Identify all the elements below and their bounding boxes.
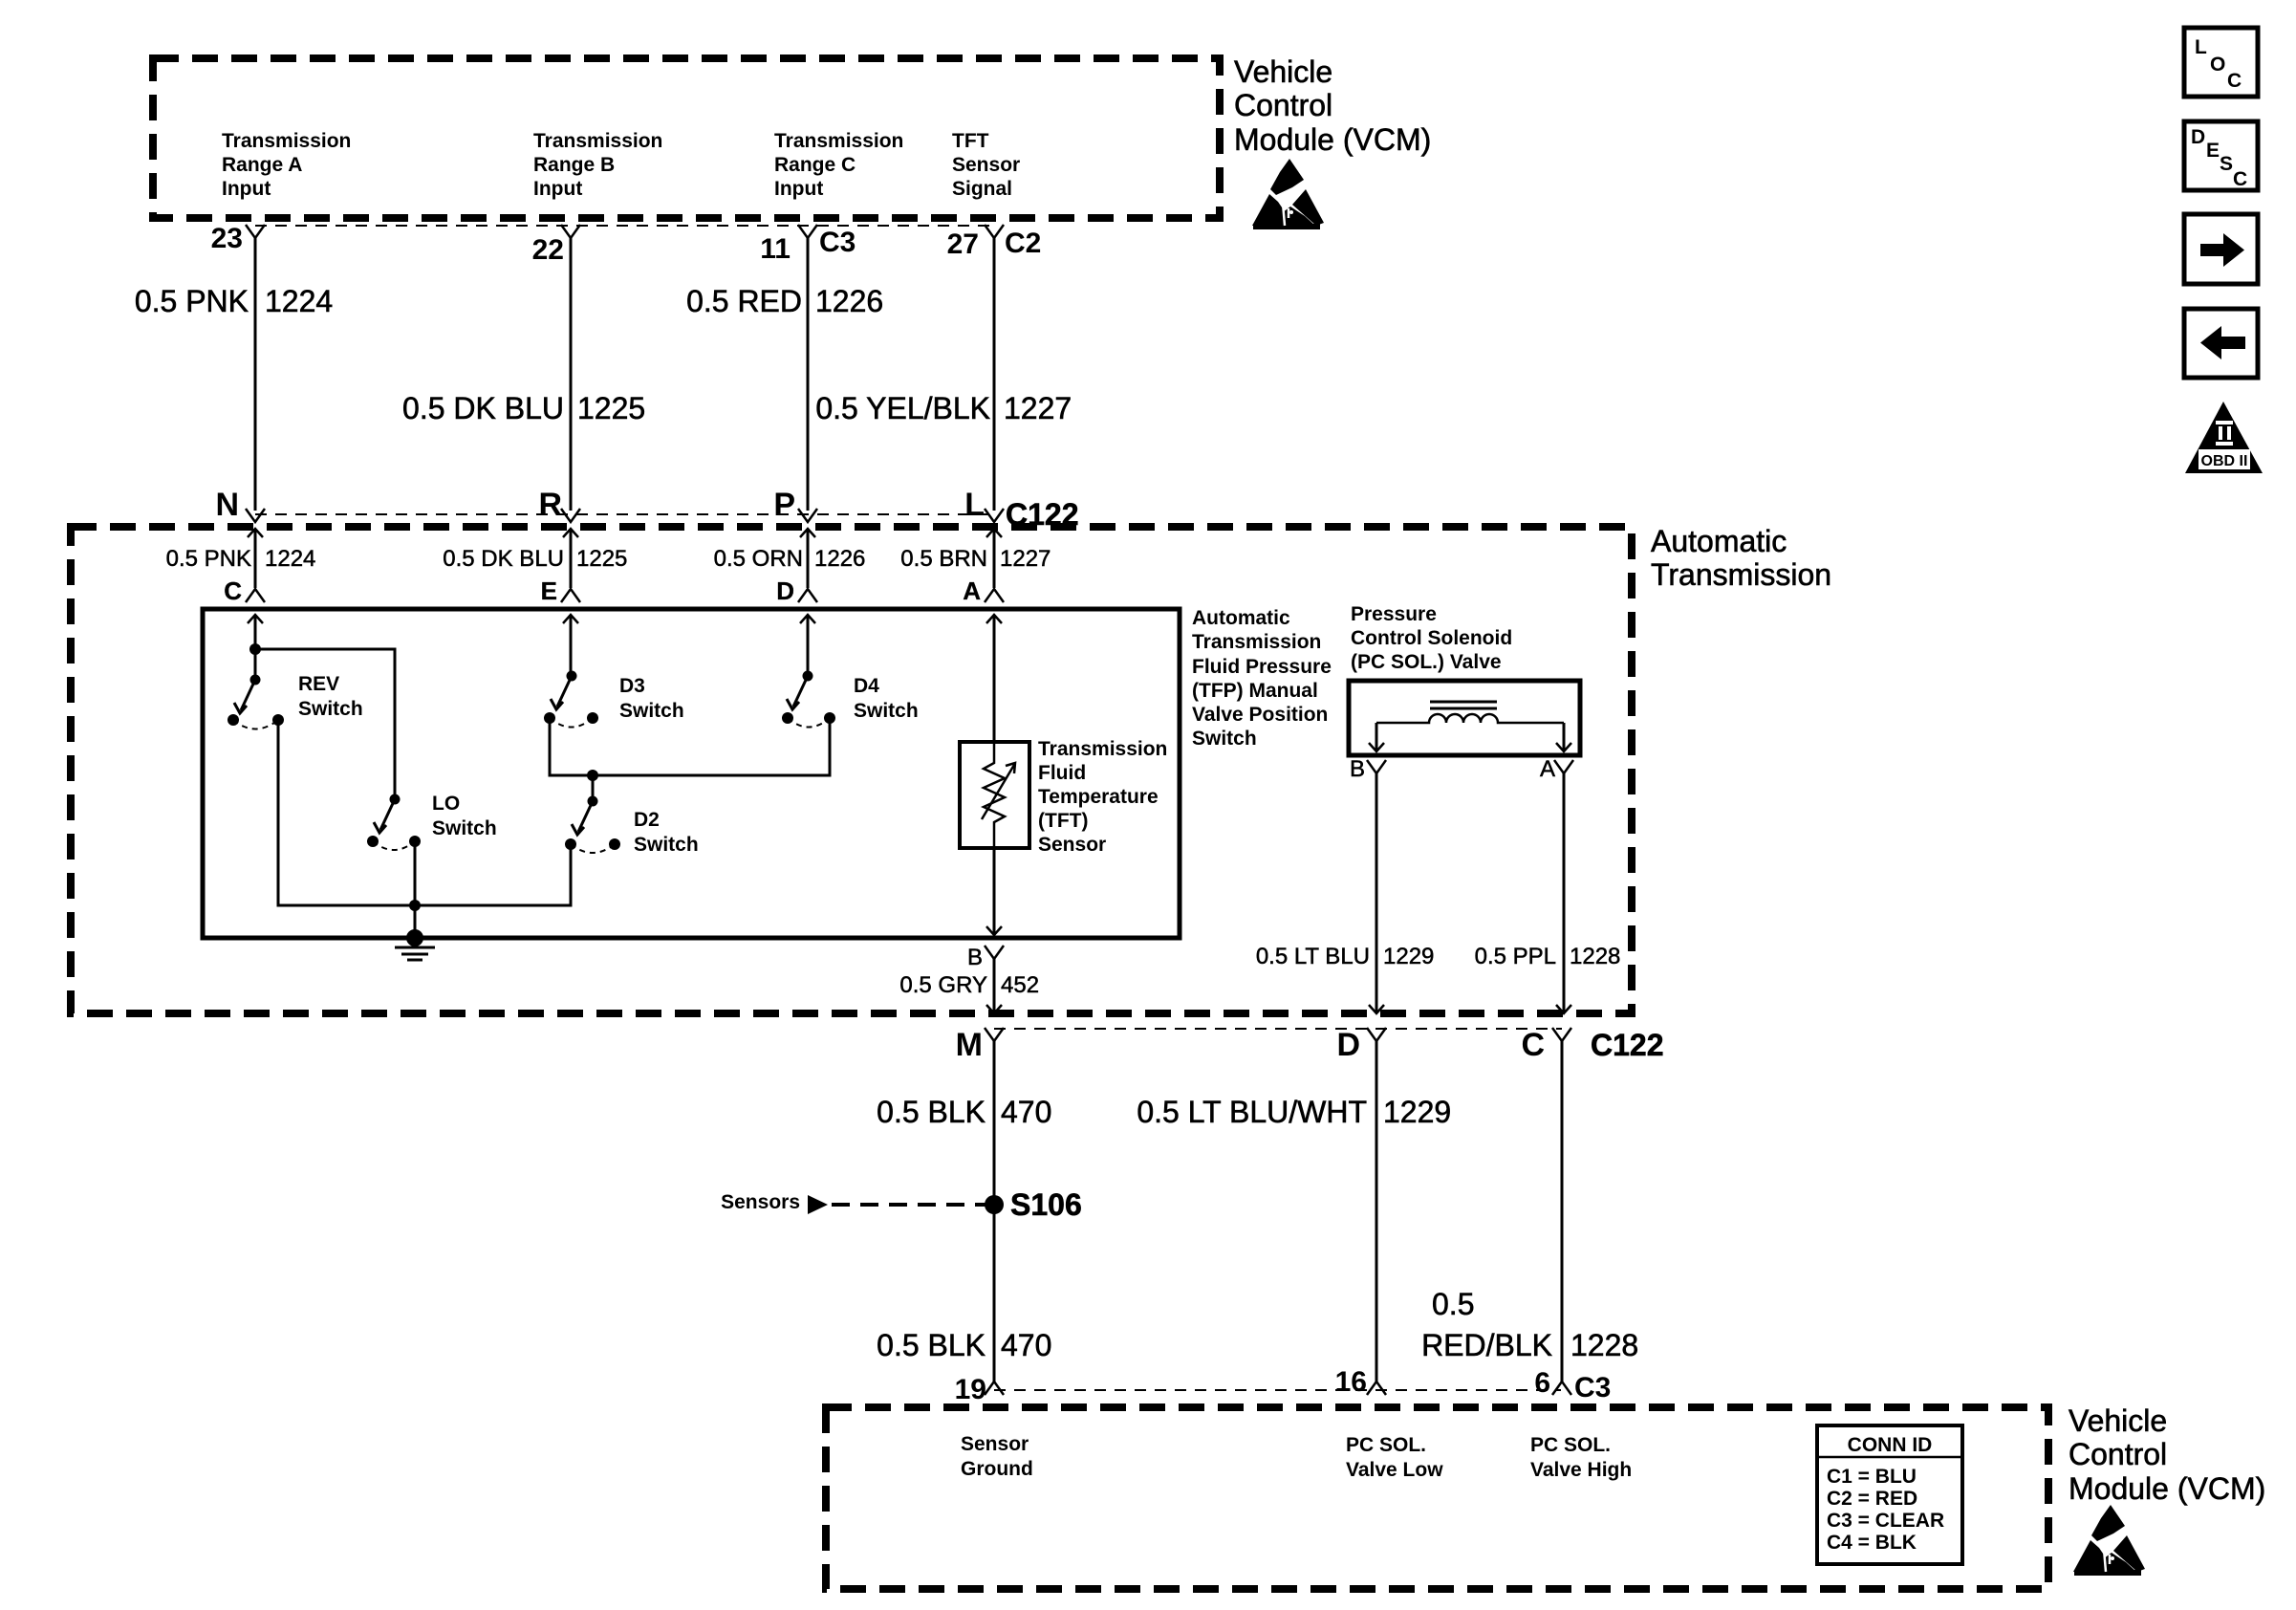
TFT sensor box (960, 742, 1029, 848)
junction node wire1 to LO branch (249, 643, 261, 655)
label Pressure Control Solenoid (PC SOL.) Valve (1351, 603, 1512, 673)
svg-text:Valve Position: Valve Position (1192, 704, 1328, 726)
svg-text:16: 16 (1335, 1366, 1367, 1398)
svg-text:0.5 LT BLU/WHT: 0.5 LT BLU/WHT (1137, 1095, 1367, 1129)
svg-text:TFT: TFT (952, 130, 989, 152)
pin 22 (532, 225, 580, 266)
svg-text:REV: REV (298, 673, 339, 695)
svg-text:O: O (2210, 54, 2225, 76)
svg-text:Range C: Range C (774, 154, 856, 176)
solenoid coil (1376, 714, 1564, 723)
svg-text:Transmission: Transmission (1651, 557, 1831, 592)
wire 470 BLK sensor ground (993, 1041, 996, 1382)
svg-text:Range A: Range A (222, 154, 302, 176)
label PC SOL. Valve High (1530, 1434, 1632, 1481)
svg-text:C: C (2227, 70, 2242, 92)
svg-text:1227: 1227 (1004, 391, 1072, 425)
svg-text:0.5 DK BLU: 0.5 DK BLU (402, 391, 564, 425)
CONN ID table (1817, 1425, 1962, 1564)
svg-text:1224: 1224 (265, 284, 333, 318)
svg-text:A: A (963, 577, 981, 605)
svg-text:Fluid Pressure: Fluid Pressure (1192, 656, 1332, 678)
wire 1225 DK BLU VCM to C122 (570, 238, 573, 511)
svg-text:1225: 1225 (576, 546, 627, 572)
label D2 Switch (634, 809, 699, 856)
PC SOL valve box (1349, 681, 1580, 755)
label 0.5 BLK 470 lower (877, 1328, 1051, 1362)
svg-text:0.5 LT BLU: 0.5 LT BLU (1256, 944, 1370, 969)
svg-text:Module (VCM): Module (VCM) (1234, 122, 1431, 157)
svg-text:Transmission: Transmission (533, 130, 662, 152)
svg-text:470: 470 (1001, 1095, 1051, 1129)
svg-text:0.5 PNK: 0.5 PNK (135, 284, 249, 318)
svg-text:Switch: Switch (432, 817, 497, 839)
svg-text:M: M (956, 1027, 983, 1063)
connector L (964, 487, 1004, 523)
pin 16 (1335, 1366, 1386, 1398)
svg-text:C3: C3 (819, 227, 856, 258)
svg-text:Module (VCM): Module (VCM) (2069, 1471, 2265, 1506)
svg-text:0.5 YEL/BLK: 0.5 YEL/BLK (815, 391, 990, 425)
svg-text:Vehicle: Vehicle (2069, 1403, 2167, 1438)
svg-text:Switch: Switch (854, 700, 919, 722)
label 0.5 BLK 470 upper (877, 1095, 1051, 1129)
connector N (215, 487, 265, 523)
svg-text:Sensor: Sensor (1038, 834, 1106, 856)
connector B PC SOL (1350, 756, 1386, 782)
svg-text:Vehicle: Vehicle (1234, 54, 1332, 89)
label Transmission Range B Input (533, 130, 662, 200)
svg-text:C: C (1521, 1027, 1545, 1063)
bottom connector row dashed line (994, 1389, 1561, 1391)
svg-text:0.5 RED: 0.5 RED (686, 284, 802, 318)
wire TFT to box edge (986, 848, 1002, 935)
svg-text:23: 23 (211, 223, 243, 254)
wire D3 to D4 bus (550, 718, 830, 775)
svg-text:OBD II: OBD II (2201, 453, 2248, 469)
connector A PC SOL (1540, 756, 1573, 782)
label TFT Sensor Signal (952, 130, 1020, 200)
label 0.5 DK BLU 1225 small (443, 546, 627, 572)
Automatic Transmission dashed box (71, 527, 1632, 1013)
svg-text:Pressure: Pressure (1351, 603, 1437, 625)
pin 6 C3 (1534, 1367, 1611, 1403)
Vehicle Control Module (VCM) bottom dashed box (826, 1407, 2048, 1589)
back arrow icon box (2184, 309, 2258, 378)
svg-text:Range B: Range B (533, 154, 615, 176)
svg-text:Switch: Switch (619, 700, 684, 722)
svg-text:D: D (2191, 126, 2205, 148)
svg-text:Transmission: Transmission (1038, 738, 1167, 760)
svg-text:C: C (224, 577, 242, 605)
pin arrow C122-A wire4 (985, 529, 1004, 602)
svg-text:B: B (967, 945, 983, 970)
ESD symbol bottom (2073, 1505, 2145, 1576)
svg-text:Ground: Ground (961, 1458, 1033, 1480)
svg-text:C122: C122 (1591, 1028, 1664, 1062)
svg-text:0.5 DK BLU: 0.5 DK BLU (443, 546, 564, 572)
label 0.5 DK BLU 1225 (402, 391, 645, 425)
svg-text:Sensor: Sensor (952, 154, 1020, 176)
svg-text:Sensor: Sensor (961, 1433, 1029, 1455)
svg-text:S: S (2220, 153, 2233, 175)
junction node lower bus to ground (409, 900, 421, 911)
svg-text:Valve Low: Valve Low (1346, 1459, 1443, 1481)
wire 1228 RED/BLK (1561, 1041, 1564, 1382)
svg-text:S106: S106 (1010, 1187, 1082, 1222)
svg-text:PC SOL.: PC SOL. (1530, 1434, 1611, 1456)
svg-text:(TFT): (TFT) (1038, 810, 1088, 832)
svg-text:1228: 1228 (1570, 944, 1620, 969)
TFT sensor variable arrow (982, 763, 1015, 819)
svg-text:C3 = CLEAR: C3 = CLEAR (1827, 1510, 1944, 1532)
label Transmission Range C Input (774, 130, 903, 200)
wire 1227 YEL/BLK VCM to C122 (993, 238, 996, 511)
box entry arrow wire4 (986, 615, 1002, 742)
pin arrow C122-E wire2 (561, 529, 580, 602)
svg-text:C3: C3 (1574, 1372, 1611, 1403)
svg-text:Input: Input (774, 178, 823, 200)
svg-text:Automatic: Automatic (1192, 607, 1290, 629)
pin 11 C3 (760, 225, 856, 265)
svg-text:R: R (538, 487, 562, 523)
connector P (773, 487, 817, 523)
wire REV contact to lower bus (278, 720, 571, 905)
svg-text:D3: D3 (619, 675, 645, 697)
label 0.5 YEL/BLK 1227 (815, 391, 1072, 425)
box entry arrow wire3 (800, 615, 815, 676)
label REV Switch (298, 673, 363, 720)
wire 1229 LT BLU/WHT (1375, 1041, 1378, 1382)
svg-text:1224: 1224 (265, 546, 315, 572)
connector M (956, 1027, 1004, 1063)
splice S106 (985, 1187, 1082, 1222)
svg-text:22: 22 (532, 234, 564, 266)
box entry arrow wire1 (248, 615, 263, 680)
ESD symbol top (1252, 159, 1324, 229)
svg-text:D: D (1336, 1027, 1360, 1063)
svg-text:1226: 1226 (815, 284, 883, 318)
svg-text:E: E (2206, 140, 2220, 162)
svg-text:0.5 BLK: 0.5 BLK (877, 1095, 986, 1129)
coil lead A arrow (1556, 723, 1571, 751)
label 0.5 PNK 1224 small (166, 546, 316, 572)
svg-text:D4: D4 (854, 675, 879, 697)
svg-text:D2: D2 (634, 809, 660, 831)
label 0.5 BRN 1227 small (900, 546, 1051, 572)
D2 Switch (565, 796, 620, 854)
wire 1229 LT BLU to AT box edge (1369, 773, 1384, 1013)
ground (395, 929, 435, 960)
pin 27 C2 (947, 225, 1042, 260)
label 0.5 RED 1226 (686, 284, 883, 318)
svg-text:Control Solenoid: Control Solenoid (1351, 627, 1512, 649)
svg-text:(TFP) Manual: (TFP) Manual (1192, 680, 1318, 702)
label 0.5 ORN 1226 small (714, 546, 866, 572)
pin arrow C122-D wire3 (798, 529, 817, 602)
label Automatic Transmission right (1651, 524, 1831, 592)
label D3 Switch (619, 675, 684, 722)
svg-text:452: 452 (1001, 972, 1039, 998)
svg-text:(PC SOL.) Valve: (PC SOL.) Valve (1351, 651, 1502, 673)
svg-text:Temperature: Temperature (1038, 786, 1159, 808)
svg-text:0.5 BRN: 0.5 BRN (900, 546, 987, 572)
svg-text:0.5: 0.5 (1432, 1287, 1474, 1321)
svg-text:C2 = RED: C2 = RED (1827, 1488, 1917, 1510)
svg-text:L: L (2195, 36, 2207, 58)
svg-text:1228: 1228 (1570, 1328, 1638, 1362)
svg-text:1225: 1225 (577, 391, 645, 425)
label D4 Switch (854, 675, 919, 722)
pin arrow C122-C wire1 (246, 529, 265, 602)
LOC icon box (2184, 28, 2258, 97)
connector C122 row dashed line (255, 513, 994, 515)
label PC SOL. Valve Low (1346, 1434, 1443, 1481)
wire 1226 RED VCM to C122 (807, 238, 810, 511)
label LO Switch (432, 793, 497, 839)
wire branch to LO switch (255, 649, 395, 799)
connector C122 lower row dashed line (994, 1028, 1562, 1030)
svg-text:B: B (1350, 756, 1365, 782)
wire 452 GRY to AT box edge (986, 959, 1002, 1013)
svg-text:1226: 1226 (814, 546, 865, 572)
label Sensor Ground (961, 1433, 1033, 1480)
sensors dashed wire (832, 1203, 986, 1207)
svg-text:Valve High: Valve High (1530, 1459, 1632, 1481)
label 0.5 LT BLU 1229 (1256, 944, 1435, 969)
svg-text:C4 = BLK: C4 = BLK (1827, 1532, 1917, 1554)
label 0.5 LT BLU/WHT 1229 (1137, 1095, 1451, 1129)
svg-text:1229: 1229 (1383, 944, 1434, 969)
svg-text:0.5 PNK: 0.5 PNK (166, 546, 251, 572)
svg-text:0.5 PPL: 0.5 PPL (1475, 944, 1556, 969)
svg-text:470: 470 (1001, 1328, 1051, 1362)
svg-text:6: 6 (1534, 1367, 1550, 1399)
VCM pin connector row dashed line (255, 225, 994, 227)
svg-text:L: L (964, 487, 985, 523)
label Vehicle Control Module (VCM) bottom right (2069, 1403, 2265, 1506)
forward arrow icon box (2184, 214, 2258, 284)
svg-text:E: E (541, 577, 557, 605)
svg-text:0.5 BLK: 0.5 BLK (877, 1328, 986, 1362)
svg-text:11: 11 (760, 233, 791, 265)
label 0.5 RED/BLK 1228 (1421, 1287, 1638, 1362)
wire 1224 PNK VCM to C122 (254, 238, 257, 511)
svg-text:PC SOL.: PC SOL. (1346, 1434, 1426, 1456)
label 0.5 PNK 1224 (135, 284, 333, 318)
label Vehicle Control Module (VCM) top right (1234, 54, 1431, 157)
connector D lower (1336, 1027, 1386, 1063)
sensors arrow (808, 1195, 828, 1214)
svg-text:Control: Control (2069, 1437, 2167, 1471)
connector B below TFP box (967, 945, 1004, 970)
svg-text:C1 = BLU: C1 = BLU (1827, 1466, 1917, 1488)
wire LO contact to ground (414, 841, 417, 938)
svg-text:Automatic: Automatic (1651, 524, 1787, 558)
TFP manual valve position switch box (203, 609, 1180, 938)
svg-text:CONN ID: CONN ID (1848, 1434, 1933, 1456)
REV Switch (227, 675, 284, 729)
coil lead B arrow (1369, 723, 1384, 751)
svg-text:P: P (773, 487, 795, 523)
svg-text:N: N (215, 487, 239, 523)
LO Switch (367, 794, 421, 851)
wire 1228 PPL to AT box edge (1556, 773, 1571, 1013)
svg-text:Transmission: Transmission (222, 130, 351, 152)
connector R (538, 487, 580, 523)
svg-text:RED/BLK: RED/BLK (1421, 1328, 1552, 1362)
wire bus to D2 pivot (592, 775, 595, 801)
label Transmission Range A Input (222, 130, 351, 200)
svg-text:Switch: Switch (298, 698, 363, 720)
svg-text:Input: Input (533, 178, 582, 200)
label 0.5 GRY 452 (899, 972, 1039, 998)
OBD II icon (2185, 402, 2263, 473)
TFT sensor resistor (984, 742, 1005, 848)
svg-text:0.5 ORN: 0.5 ORN (714, 546, 803, 572)
svg-text:C2: C2 (1005, 228, 1041, 259)
pin 23 (211, 223, 265, 254)
svg-text:Fluid: Fluid (1038, 762, 1086, 784)
svg-text:LO: LO (432, 793, 460, 815)
svg-text:A: A (1540, 756, 1555, 782)
D3 Switch (544, 671, 598, 728)
Vehicle Control Module (VCM) top dashed box (153, 58, 1220, 218)
svg-text:27: 27 (947, 228, 979, 260)
svg-text:Transmission: Transmission (1192, 631, 1321, 653)
svg-text:19: 19 (955, 1374, 986, 1405)
svg-text:Signal: Signal (952, 178, 1012, 200)
svg-text:Switch: Switch (634, 834, 699, 856)
solenoid core bars (1430, 702, 1497, 708)
DESC icon box (2184, 121, 2258, 190)
svg-text:1227: 1227 (1000, 546, 1051, 572)
label 0.5 PPL 1228 (1475, 944, 1621, 969)
svg-text:Input: Input (222, 178, 271, 200)
label Transmission Fluid Temperature (TFT) Sensor (1038, 738, 1167, 856)
label Automatic Transmission Fluid Pressure (TFP) Manual Valve Position Switch (1192, 607, 1332, 750)
svg-text:Control: Control (1234, 88, 1332, 122)
svg-text:1229: 1229 (1383, 1095, 1451, 1129)
pin 19 (955, 1374, 1004, 1405)
svg-text:D: D (776, 577, 794, 605)
svg-text:Switch: Switch (1192, 728, 1257, 750)
junction node D3-D4 bus to D2 (587, 770, 598, 781)
svg-text:C: C (2233, 168, 2247, 190)
box entry arrow wire2 (563, 615, 578, 676)
svg-text:Sensors: Sensors (721, 1191, 800, 1213)
svg-text:Transmission: Transmission (774, 130, 903, 152)
svg-text:0.5 GRY: 0.5 GRY (899, 972, 987, 998)
D4 Switch (782, 671, 835, 728)
connector C lower (1521, 1027, 1571, 1063)
